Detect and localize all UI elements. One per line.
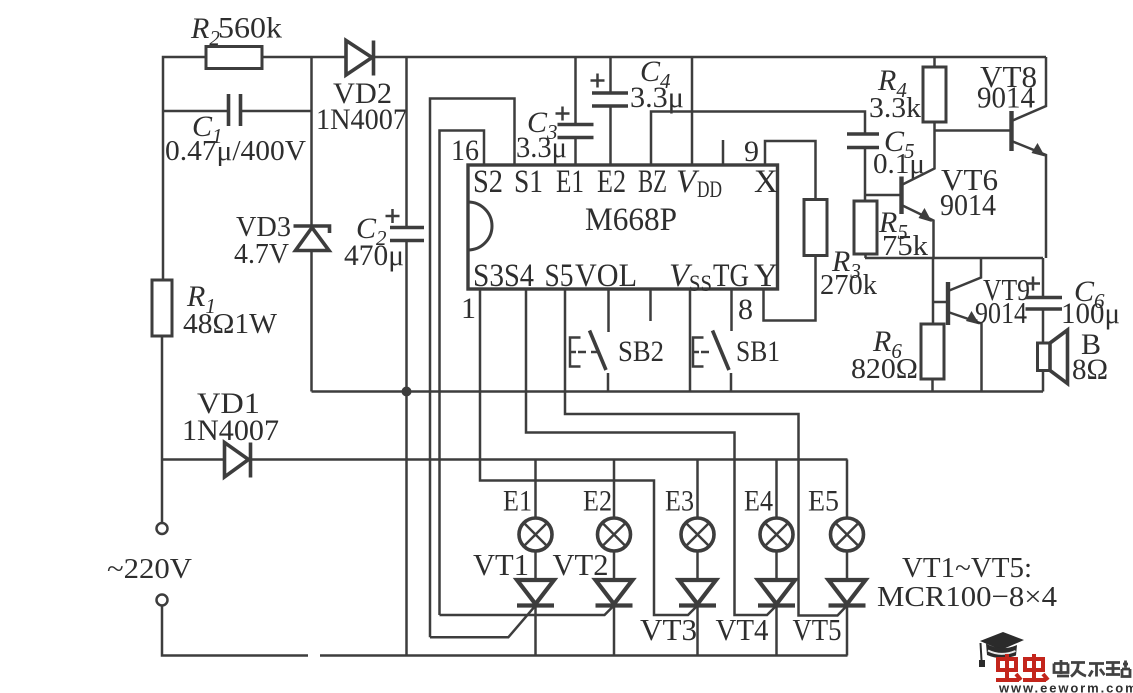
svg-text:S2: S2: [473, 164, 503, 200]
wire S1 pin to column: [430, 99, 515, 638]
AC source terminal upper: [157, 523, 168, 534]
svg-text:3.3μ: 3.3μ: [516, 131, 567, 164]
transistor VT9 9014: [933, 258, 1030, 392]
resistor R1 48ohm 1W: [152, 280, 278, 340]
wire BZ pin to C5: [651, 112, 865, 166]
wire pin 8 to R3 bottom: [764, 256, 816, 321]
svg-text:8: 8: [738, 293, 753, 326]
svg-text:16: 16: [451, 134, 479, 167]
wire node to R6: [932, 258, 935, 324]
label VT1~VT5 MCR100: [877, 552, 1058, 613]
diode VD2 1N4007: [316, 41, 407, 137]
wire S2 pin to column: [440, 131, 485, 616]
capacitor C1 0.47u/400V: [163, 94, 312, 167]
svg-text:VT1~VT5:: VT1~VT5:: [902, 552, 1032, 584]
capacitor C3 3.3u: [516, 57, 594, 165]
resistor R5 75k: [854, 201, 929, 262]
wire VD1 anode line: [162, 458, 225, 461]
svg-text:S4: S4: [504, 258, 534, 294]
lamp E1: [503, 460, 552, 581]
svg-text:E3: E3: [665, 485, 694, 518]
lamp E4: [744, 460, 793, 581]
wire C2 column to bottom rail: [405, 392, 408, 656]
svg-text:VOL: VOL: [575, 258, 637, 294]
svg-text:270k: 270k: [820, 269, 877, 301]
svg-text:S3: S3: [473, 258, 504, 294]
svg-text:DD: DD: [697, 177, 722, 202]
svg-text:E2: E2: [597, 164, 626, 200]
wire S4 pin to VT4 gate: [526, 289, 777, 615]
capacitor C6 100u: [1026, 258, 1121, 343]
watermark text chongchong: [996, 654, 1048, 680]
svg-text:VT4: VT4: [716, 612, 769, 647]
watermark url: [998, 681, 1133, 693]
pin stub VSS unconnected: [649, 289, 652, 321]
svg-text:820Ω: 820Ω: [851, 353, 918, 385]
svg-text:SB1: SB1: [736, 335, 780, 368]
svg-text:3.3k: 3.3k: [869, 92, 922, 124]
capacitor C4 3.3u: [591, 55, 685, 165]
thyristor VT5: [793, 580, 866, 656]
svg-text:SS: SS: [689, 271, 712, 296]
node junction dot: [402, 387, 412, 397]
svg-text:0.1μ: 0.1μ: [873, 148, 925, 180]
wire AC lower terminal to bottom rail: [162, 606, 308, 656]
wire emitter node rail: [865, 257, 1043, 260]
capacitor C5 0.1u: [847, 125, 925, 201]
wire lamp supply rail: [251, 458, 848, 461]
svg-text:VT5: VT5: [793, 612, 842, 647]
wire R1 to AC terminal: [161, 336, 164, 523]
wire VOL pin to SB2: [607, 289, 610, 332]
pushbutton SB2: [570, 331, 664, 392]
wire VDD pin to top rail: [691, 57, 694, 165]
svg-text:E5: E5: [808, 485, 839, 518]
lamp E3: [665, 460, 714, 581]
transistor VT6 9014: [865, 131, 998, 259]
svg-text:MCR100−8×4: MCR100−8×4: [877, 581, 1058, 613]
wire S3 pin to VT3 gate: [480, 289, 698, 615]
capacitor C2 470u: [344, 57, 424, 392]
svg-text:E1: E1: [556, 164, 584, 200]
svg-text:VT2: VT2: [553, 547, 609, 582]
resistor R6 820ohm: [851, 324, 944, 392]
svg-text:www.eeworm.com: www.eeworm.com: [998, 681, 1133, 693]
watermark logo cap: [979, 632, 1024, 667]
thyristor VT1: [430, 547, 554, 656]
zener diode VD3 4.7V: [234, 57, 330, 392]
wire top rail R2 to VD2: [262, 56, 346, 59]
wire S5 pin to VT5 gate: [565, 289, 847, 616]
svg-text:4.7V: 4.7V: [234, 238, 289, 270]
transistor VT8 9014: [935, 57, 1047, 258]
resistor R3 270k: [804, 200, 877, 302]
svg-text:VT1: VT1: [473, 547, 529, 582]
svg-text:1N4007: 1N4007: [316, 103, 407, 136]
thyristor VT3: [640, 580, 716, 656]
svg-text:E4: E4: [744, 485, 773, 518]
wire ground rail: [312, 390, 1044, 393]
wire X pin to R3 top, pin 9: [744, 135, 816, 200]
wire Y pin to SB1: [730, 289, 733, 331]
svg-text:S5: S5: [545, 258, 574, 294]
svg-text:1N4007: 1N4007: [182, 414, 279, 447]
svg-text:X: X: [754, 164, 778, 200]
thyristor VT4: [716, 580, 796, 656]
lamp E5: [808, 460, 864, 581]
svg-text:BZ: BZ: [638, 164, 667, 200]
svg-text:470μ: 470μ: [344, 239, 404, 272]
pin stub unconnected top: [722, 140, 725, 165]
IC U1 M668P: [451, 134, 778, 326]
wire top rail left segment: [163, 57, 206, 111]
svg-text:~220V: ~220V: [107, 553, 192, 585]
svg-text:100μ: 100μ: [1061, 297, 1120, 330]
svg-text:8Ω: 8Ω: [1072, 353, 1108, 386]
svg-text:SB2: SB2: [618, 335, 664, 368]
wire top rail VD2 to right end: [374, 56, 1047, 59]
watermark text site name: [1054, 660, 1130, 677]
speaker B 8ohm: [1038, 328, 1109, 392]
AC source terminal lower: [157, 595, 168, 606]
svg-text:3.3μ: 3.3μ: [630, 81, 684, 114]
svg-text:9014: 9014: [975, 295, 1027, 330]
pushbutton SB1: [693, 331, 780, 392]
resistor R4 3.3k: [869, 57, 946, 131]
svg-text:48Ω1W: 48Ω1W: [183, 308, 278, 340]
svg-text:1: 1: [461, 292, 476, 325]
wire left column C1 to R1: [162, 111, 165, 280]
svg-text:VT3: VT3: [640, 612, 697, 647]
svg-text:9014: 9014: [940, 187, 996, 222]
resistor R2 560k: [190, 12, 282, 69]
wire bottom rail right part: [320, 654, 848, 657]
svg-text:E1: E1: [503, 485, 532, 518]
svg-text:E2: E2: [583, 485, 612, 518]
svg-text:0.47μ/400V: 0.47μ/400V: [165, 135, 306, 167]
thyristor VT2: [440, 547, 633, 656]
svg-text:M668P: M668P: [585, 202, 677, 238]
wire TG pin to ground rail: [689, 289, 692, 392]
svg-text:Y: Y: [754, 258, 778, 294]
svg-text:TG: TG: [713, 258, 749, 294]
svg-text:S1: S1: [514, 164, 543, 200]
lamp E2: [583, 460, 631, 581]
label ~220V: [107, 553, 192, 585]
svg-text:560k: 560k: [218, 12, 282, 45]
svg-text:9014: 9014: [977, 80, 1035, 115]
diode VD1 1N4007: [182, 387, 279, 478]
